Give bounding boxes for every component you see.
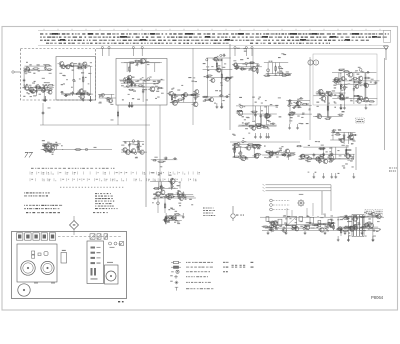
svg-text:77: 77 (24, 150, 33, 160)
svg-text:P8064: P8064 (371, 295, 384, 300)
